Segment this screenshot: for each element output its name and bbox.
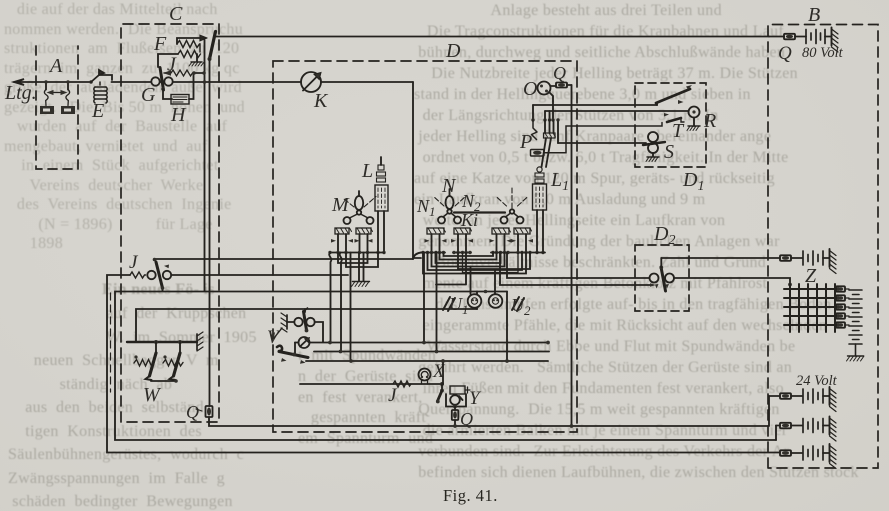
svg-text:D1: D1 [682, 169, 704, 194]
plug O [538, 82, 557, 95]
nest / bus of group M [328, 251, 384, 287]
meter K [301, 72, 321, 92]
fuse Q at Z battery [780, 255, 791, 260]
svg-text:U2: U2 [511, 295, 531, 318]
svg-text:O: O [523, 78, 537, 100]
knife switch (to long top wire) [208, 32, 216, 62]
enclosure C (dashed box) [121, 24, 219, 422]
resistor J (bottom) [393, 381, 411, 387]
wire: line to resistor J (bottom) and lamp X [300, 383, 442, 385]
contact T [664, 113, 684, 122]
svg-text:Q: Q [186, 402, 199, 422]
contact S [643, 132, 665, 162]
wires: nest from O to D1 [531, 92, 688, 143]
svg-text:Ki: Ki [460, 210, 478, 230]
svg-text:Y: Y [469, 388, 482, 409]
wire: main line corner down [413, 82, 421, 258]
resistor H in box [163, 73, 194, 104]
collector M [344, 191, 377, 224]
svg-text:N: N [441, 175, 457, 197]
wire: bus y=275 with loop1 [107, 275, 780, 453]
enclosure D2 (dashed box) [635, 245, 689, 311]
ghost bleed-through text top-left [4, 0, 292, 254]
brush group M (left) [331, 228, 353, 252]
svg-text:T: T [672, 120, 685, 142]
svg-text:J: J [388, 385, 398, 406]
svg-text:E: E [91, 100, 104, 122]
switch on main wire near E [89, 70, 112, 84]
tower L [375, 157, 388, 254]
wire: from fuse down the long vertical [571, 85, 573, 426]
resistor row J (upper) with arrow [163, 70, 204, 76]
enclosure B / right dashed frame [768, 25, 878, 469]
rheostat W [127, 332, 203, 383]
svg-text:B: B [808, 4, 820, 26]
wire: bus y=309 [136, 309, 477, 342]
svg-text:L1: L1 [550, 169, 569, 194]
battery 24 Volt row 3 [780, 444, 836, 469]
svg-text:A: A [48, 55, 63, 77]
wire: bottom line y=426 [209, 396, 769, 426]
arrester 1 in A [40, 80, 68, 114]
svg-text:D: D [445, 40, 461, 62]
wire: bus to the left toward main drop [413, 253, 421, 260]
svg-text:R: R [703, 110, 716, 132]
resistor F upper [177, 38, 199, 44]
wire: bus y=291 with loop2 [115, 292, 776, 441]
ghost mid fragments (bleed-through) [298, 346, 436, 450]
enclosure D1 (dashed box) [635, 83, 706, 167]
switch J (lower-left) [130, 258, 348, 291]
lamp X [419, 369, 431, 385]
svg-text:24 Volt: 24 Volt [796, 373, 838, 389]
battery 24 Volt row 2 [776, 417, 836, 442]
contact V [270, 308, 323, 342]
svg-text:Q: Q [460, 409, 473, 429]
svg-text:J: J [167, 54, 177, 76]
selector grid Z [784, 283, 840, 332]
svg-text:Z: Z [805, 265, 817, 287]
wire: bus y=351.5 [314, 351, 549, 353]
nested U routes [444, 253, 494, 257]
svg-text:C: C [169, 3, 183, 25]
contact G [151, 68, 172, 91]
wire: drops from nest to lower buses [423, 253, 425, 343]
svg-text:N1: N1 [416, 196, 436, 219]
svg-text:H: H [170, 104, 187, 126]
brush group M (right) [355, 228, 373, 252]
svg-text:D2: D2 [653, 223, 675, 248]
dash-dot boundary left of W [110, 293, 112, 392]
coil E [94, 82, 108, 103]
battery stack right of Z [845, 289, 864, 361]
wire: verticals down from F/knife [204, 40, 206, 291]
svg-text:J: J [129, 252, 139, 273]
svg-text:Q: Q [778, 43, 792, 64]
svg-text:Ltg.: Ltg. [4, 82, 37, 104]
contact R [687, 107, 700, 131]
svg-text:M: M [331, 194, 350, 216]
brush groups Ki (4 boxes) [425, 228, 534, 252]
wire: feed from bus to Y [442, 361, 444, 384]
plug U1 U2 [443, 267, 524, 362]
collector N (Ki left) [433, 189, 466, 224]
ghost bleed-through right column [414, 0, 889, 483]
ground under F [191, 61, 202, 63]
svg-text:W: W [143, 384, 162, 406]
relay Y [436, 384, 470, 408]
svg-text:S: S [664, 141, 674, 163]
svg-text:G: G [141, 84, 156, 106]
enclosure A (dashed box) [36, 46, 78, 169]
wire: long top line to battery B [214, 36, 769, 38]
enclosure D (dashed box) [273, 61, 577, 432]
svg-text:F: F [153, 33, 167, 55]
svg-text:Q: Q [553, 63, 566, 83]
arrester 2 in A [61, 80, 75, 114]
svg-text:80 Volt: 80 Volt [802, 45, 844, 61]
switch arm (top, in D1) [656, 85, 692, 105]
svg-text:Fig. 41.: Fig. 41. [443, 486, 498, 505]
switch in D2 [650, 258, 791, 291]
battery Z row [791, 249, 836, 274]
collector N2 (Ki right) [496, 188, 529, 224]
svg-text:U1: U1 [449, 294, 469, 317]
svg-text:L: L [361, 160, 373, 182]
resistor network F [153, 33, 207, 67]
svg-text:P: P [519, 131, 532, 153]
wire: exits right to D2 [507, 253, 649, 279]
arm switch under V [277, 346, 548, 364]
tower L1 [533, 120, 556, 254]
fuse Q (under W) [206, 406, 213, 417]
fuse column at Z grid [836, 286, 845, 327]
drawbar Ki [454, 211, 505, 213]
battery 80 Volt [806, 28, 838, 53]
nest / bus of group Ki [154, 251, 545, 274]
fuse Q (top, at O) [556, 83, 572, 88]
resistor F lower [178, 51, 201, 58]
wire: main line from Ltg. [14, 81, 413, 83]
svg-text:K: K [313, 90, 329, 112]
fuse Q (at battery B) [769, 34, 806, 40]
fuse Q (under Y) [452, 407, 459, 428]
wire: verticals from M nest to lower buses [329, 253, 331, 343]
plug P (lightning lead + fuse) [531, 120, 663, 156]
meter at V [295, 337, 550, 353]
wire: feed to Z battery [661, 257, 780, 259]
ghost left lower column [102, 278, 257, 350]
